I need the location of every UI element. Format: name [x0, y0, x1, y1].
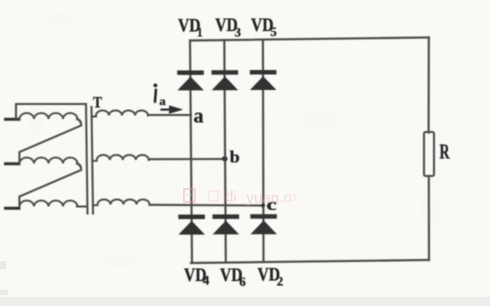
svg-text:3: 3: [235, 24, 242, 39]
diode VD4: [179, 215, 205, 234]
wire winding C end to core-side return: [77, 205, 86, 207]
diode VD6: [213, 215, 239, 234]
transformer T secondary winding a (coil): [92, 110, 149, 116]
node c junction dot: [261, 204, 265, 208]
transformer T primary winding A (coil): [20, 113, 78, 119]
transformer T core right bar: [92, 107, 94, 214]
transformer T secondary winding b (coil): [92, 155, 149, 161]
diode VD5: [250, 70, 276, 89]
transformer T primary winding C (coil): [20, 201, 78, 207]
transformer T primary phase-A input stub: [6, 118, 20, 121]
svg-text:2: 2: [277, 274, 284, 289]
wire bridge leg 2 (vertical): [224, 40, 226, 262]
diode VD2: [251, 215, 277, 234]
diode VD1: [178, 71, 204, 90]
resistor R body: [424, 132, 434, 176]
label i (current symbol): [154, 84, 158, 102]
svg-text:T: T: [93, 95, 102, 112]
wire bottom DC bus: [191, 260, 429, 263]
transformer T secondary winding c (coil): [93, 199, 150, 205]
svg-text:6: 6: [239, 274, 246, 289]
diode VD3: [212, 71, 238, 90]
transformer T core left bar: [86, 104, 88, 214]
wire bridge leg 1 (vertical): [190, 41, 192, 263]
svg-text:4: 4: [203, 273, 210, 288]
svg-text:5: 5: [270, 24, 277, 39]
svg-text:a: a: [194, 106, 204, 128]
svg-text:b: b: [230, 148, 240, 167]
svg-text:a: a: [159, 94, 166, 108]
svg-text:di: di: [225, 189, 237, 206]
wire top DC bus: [190, 38, 429, 41]
wire delta link winding B end to winding C start: [19, 164, 81, 208]
watermark dianyuan.com: [184, 189, 296, 208]
svg-text:1: 1: [197, 25, 203, 40]
scan noise blobs: [28, 13, 440, 268]
wire bridge leg 3 (vertical): [262, 40, 265, 262]
wire phase b to node b: [149, 158, 226, 160]
wire phase a to node a: [148, 114, 191, 116]
wire load branch upper: [428, 38, 430, 133]
scan smudge bottom left edge: [0, 261, 6, 269]
wire top bracket from stub A over to core: [16, 104, 86, 119]
wire delta link winding A end to winding B start: [19, 119, 81, 163]
svg-text:R: R: [440, 139, 451, 163]
svg-text:o: o: [289, 189, 296, 204]
current arrow i_a: [162, 106, 183, 114]
node b junction dot: [222, 156, 228, 161]
svg-text:yuan: yuan: [247, 190, 280, 207]
transformer T primary winding B (coil): [20, 158, 78, 164]
transformer T primary phase-C input stub: [6, 207, 20, 210]
wire load branch lower: [428, 176, 430, 260]
scan shading bottom strip: [0, 297, 490, 306]
wire phase c to node c: [150, 204, 264, 207]
transformer T primary phase-B input stub: [6, 162, 20, 165]
